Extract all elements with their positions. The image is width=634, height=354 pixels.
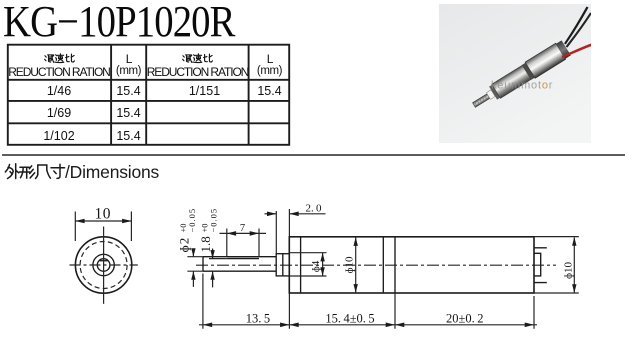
horizontal rule: [2, 154, 625, 156]
motor tube: [525, 43, 566, 78]
label phi2 +0/-0.05 (rotated): [177, 208, 198, 253]
front view boss circle: [93, 254, 114, 275]
right phi10 dim: [573, 238, 575, 293]
1.8 extension line: [209, 258, 227, 260]
gearbox + motor body: [289, 237, 534, 293]
形: [20, 166, 29, 168]
dim 7 line + arrows: [220, 232, 267, 234]
svg-text:15. 4±0. 5: 15. 4±0. 5: [325, 311, 374, 325]
phi4 bore lines: [289, 253, 326, 276]
bright collar: [486, 90, 495, 100]
title KG-10P1020R: [3, 0, 235, 47]
bottom dim line: [199, 324, 537, 326]
reduction-ratio table (drawn with SVG grid + HTML text): [0, 0, 300, 150]
shaft flat line: [227, 258, 259, 260]
right phi10 extension lines: [534, 237, 579, 293]
label 1.8 +0/-0.05 (rotated): [198, 208, 219, 253]
dim 7 extension lines: [227, 229, 259, 257]
尺: [38, 165, 47, 170]
寸: [51, 167, 65, 169]
output shaft: [473, 94, 490, 107]
motor body group: [469, 40, 571, 113]
front view outer circle: [75, 237, 131, 293]
photo background: [439, 4, 591, 143]
front view bolt-circle (dashed): [80, 242, 127, 289]
svg-text:10: 10: [94, 206, 111, 223]
shaft outline: [203, 257, 276, 272]
phi2 arrows: [192, 250, 194, 257]
svg-text:20±0. 2: 20±0. 2: [446, 311, 484, 325]
dim 10 extension lines: [74, 212, 76, 242]
technical drawing: [0, 190, 634, 354]
svg-text:7: 7: [240, 223, 245, 234]
photo of motor: [439, 4, 591, 143]
svg-text:ɸ2: ɸ2: [177, 237, 192, 253]
shared CJK glyph defs: [0, 0, 1, 1]
shaft flat chord: [99, 260, 108, 262]
ring between: [522, 63, 535, 80]
gearbox/motor boundary: [382, 237, 384, 293]
wires: [565, 7, 588, 44]
svg-text:keummotor: keummotor: [491, 80, 553, 92]
face plate line: [300, 237, 302, 293]
section label: 外形尺寸/Dimensions: [4, 163, 66, 180]
phi4 dim: [322, 253, 324, 276]
外: [5, 165, 9, 173]
svg-text:ɸ4: ɸ4: [310, 260, 322, 272]
svg-text:−0.05: −0.05: [187, 208, 197, 233]
phi10 gearbox dim: [355, 238, 357, 293]
svg-text:ɸ10: ɸ10: [563, 261, 575, 279]
dim 2.0 line + arrows: [265, 213, 277, 215]
end cap: [556, 40, 571, 58]
phi2 extension lines: [187, 257, 203, 272]
bottom dim extension lines: [203, 274, 534, 329]
main centerline: [196, 264, 556, 266]
svg-text:−0.05: −0.05: [209, 208, 219, 233]
front ring: [489, 85, 500, 100]
svg-text:ɸ10: ɸ10: [344, 256, 356, 274]
bushing: [276, 254, 289, 276]
motor terminals: [534, 248, 547, 283]
svg-text:13. 5: 13. 5: [246, 311, 270, 325]
1.8 arrows: [212, 249, 214, 259]
dim 10 line: [75, 220, 131, 222]
svg-text:1.8: 1.8: [198, 236, 213, 252]
svg-text:2. 0: 2. 0: [306, 203, 322, 215]
rear boss: [534, 253, 541, 276]
front view shaft circle: [97, 259, 110, 272]
front view vertical centerline: [103, 227, 105, 304]
front view horizontal centerline: [70, 264, 138, 266]
gearbox tube: [492, 65, 531, 98]
2.0 extension lines: [275, 211, 277, 253]
